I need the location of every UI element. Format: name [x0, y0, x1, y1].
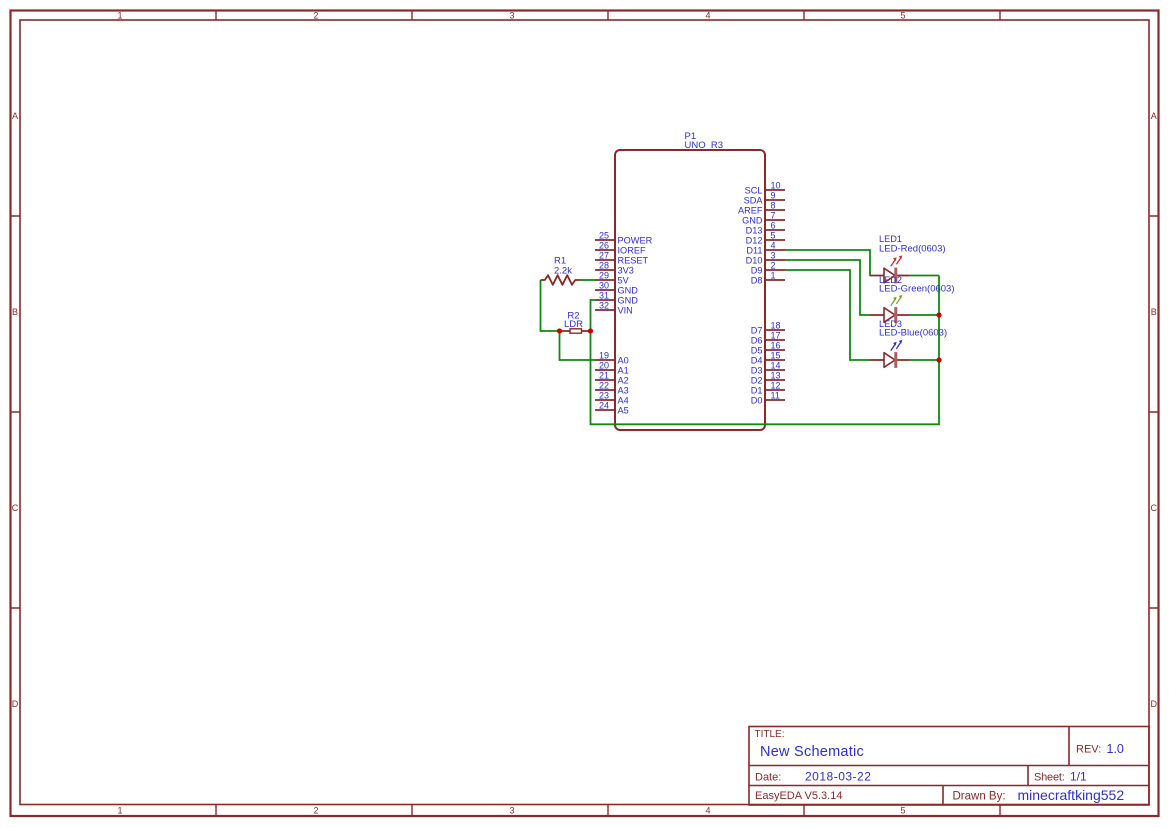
svg-text:11: 11 [771, 391, 780, 401]
svg-text:D1: D1 [751, 385, 763, 395]
svg-text:31: 31 [599, 291, 609, 301]
pin 10 SCL [745, 181, 785, 196]
svg-text:D2: D2 [751, 375, 763, 385]
pin 9 SDA [744, 191, 785, 206]
svg-text:16: 16 [771, 341, 781, 351]
svg-text:2: 2 [771, 261, 776, 271]
svg-text:GND: GND [618, 295, 639, 305]
svg-text:C: C [12, 503, 19, 513]
pin 12 D1 [751, 381, 785, 396]
svg-text:13: 13 [771, 371, 781, 381]
svg-text:EasyEDA V5.3.14: EasyEDA V5.3.14 [755, 790, 842, 802]
wire pin 3 D10 to LED2 anode [785, 260, 870, 315]
pin 11 D0 [751, 391, 785, 406]
pin 24 A5 [595, 401, 629, 416]
svg-text:A3: A3 [618, 385, 629, 395]
svg-text:28: 28 [599, 261, 609, 271]
svg-text:GND: GND [742, 215, 763, 225]
svg-text:VIN: VIN [618, 305, 633, 315]
pin 32 VIN [595, 301, 633, 316]
svg-text:A1: A1 [618, 365, 629, 375]
svg-text:AREF: AREF [738, 205, 763, 215]
svg-text:9: 9 [771, 191, 776, 201]
svg-text:12: 12 [771, 381, 781, 391]
pin 25 POWER [595, 231, 653, 246]
svg-text:1: 1 [117, 806, 122, 816]
svg-text:TITLE:: TITLE: [755, 729, 785, 740]
svg-text:4: 4 [771, 241, 776, 251]
svg-text:24: 24 [599, 401, 609, 411]
svg-text:A4: A4 [618, 395, 629, 405]
pin 5 D12 [746, 231, 785, 246]
svg-text:2: 2 [313, 10, 318, 20]
wire LED3 cathode to bus [910, 359, 940, 361]
LED LED1 LED-Red(0603) [870, 234, 946, 283]
svg-text:Date:: Date: [755, 772, 781, 784]
svg-text:D: D [1151, 699, 1158, 709]
pin 8 AREF [738, 201, 785, 216]
LED LED3 LED-Blue(0603) [870, 319, 948, 368]
pin 20 A1 [595, 361, 629, 376]
svg-text:IOREF: IOREF [618, 245, 646, 255]
pin 26 IOREF [595, 241, 646, 256]
svg-text:A: A [12, 111, 18, 121]
svg-text:14: 14 [771, 361, 781, 371]
wire LED1 cathode to bus [910, 275, 940, 277]
junction LED3 cathode [936, 357, 941, 362]
pin 28 3V3 [595, 261, 634, 276]
svg-text:1/1: 1/1 [1070, 770, 1087, 784]
pin 18 D7 [751, 321, 785, 336]
svg-text:Drawn By:: Drawn By: [953, 791, 1006, 803]
svg-text:27: 27 [599, 251, 609, 261]
svg-text:26: 26 [599, 241, 609, 251]
svg-text:5V: 5V [618, 275, 630, 285]
svg-text:29: 29 [599, 271, 609, 281]
pin 19 A0 [595, 351, 629, 366]
pin 6 D13 [746, 221, 785, 236]
svg-text:5: 5 [771, 231, 776, 241]
svg-text:LED-Red(0603): LED-Red(0603) [879, 244, 946, 255]
wire pin 2 D9 to LED3 anode [785, 270, 870, 360]
svg-text:B: B [1151, 307, 1157, 317]
pin 27 RESET [595, 251, 649, 266]
svg-text:3: 3 [771, 251, 776, 261]
pin 31 GND [595, 291, 638, 306]
svg-text:3V3: 3V3 [618, 265, 634, 275]
svg-text:B: B [12, 307, 18, 317]
svg-text:10: 10 [771, 181, 781, 191]
svg-text:D13: D13 [746, 225, 763, 235]
pin 21 A2 [595, 371, 629, 386]
wire node B bottom bus to LED cathode bus [591, 276, 940, 425]
svg-text:4: 4 [705, 10, 710, 20]
pin 2 D9 [751, 261, 785, 276]
svg-text:19: 19 [599, 351, 609, 361]
wire node A to pin 19 A0 [560, 331, 596, 360]
svg-text:17: 17 [771, 331, 781, 341]
svg-text:4: 4 [705, 806, 710, 816]
junction LED2 cathode [936, 312, 941, 317]
svg-text:D3: D3 [751, 365, 763, 375]
pin 16 D5 [751, 341, 785, 356]
svg-text:GND: GND [618, 285, 639, 295]
svg-text:D7: D7 [751, 325, 763, 335]
svg-text:7: 7 [771, 211, 776, 221]
svg-text:2018-03-22: 2018-03-22 [805, 770, 871, 784]
pin 7 GND [742, 211, 785, 226]
svg-text:5: 5 [900, 806, 905, 816]
svg-text:LED1: LED1 [879, 234, 902, 244]
wire R1 to pin 29 5V [581, 279, 596, 281]
svg-text:D6: D6 [751, 335, 763, 345]
svg-text:LDR: LDR [564, 319, 583, 330]
svg-text:20: 20 [599, 361, 609, 371]
svg-text:1.0: 1.0 [1107, 742, 1124, 756]
pin 23 A4 [595, 391, 629, 406]
svg-text:minecraftking552: minecraftking552 [1018, 787, 1125, 803]
wire R1 left to node A [541, 280, 560, 331]
svg-text:2: 2 [313, 806, 318, 816]
pin 13 D2 [751, 371, 785, 386]
svg-text:22: 22 [599, 381, 609, 391]
svg-text:D0: D0 [751, 395, 763, 405]
pin 1 D8 [751, 271, 785, 286]
wire pin 4 D11 to LED1 anode [785, 250, 870, 276]
svg-text:21: 21 [599, 371, 609, 381]
svg-text:SDA: SDA [744, 195, 764, 205]
svg-text:32: 32 [599, 301, 609, 311]
svg-text:25: 25 [599, 231, 609, 241]
LED LED2 LED-Green(0603) [870, 275, 955, 323]
wire node B to pin 31 GND [591, 300, 596, 331]
svg-text:15: 15 [771, 351, 781, 361]
junction node B [588, 328, 593, 333]
svg-text:Sheet:: Sheet: [1034, 772, 1065, 784]
svg-text:LED-Green(0603): LED-Green(0603) [879, 284, 955, 295]
svg-text:A2: A2 [618, 375, 629, 385]
pin 3 D10 [746, 251, 785, 266]
svg-text:1: 1 [117, 10, 122, 20]
svg-text:C: C [1151, 503, 1158, 513]
svg-text:D5: D5 [751, 345, 763, 355]
svg-text:New Schematic: New Schematic [760, 744, 864, 760]
pin 4 D11 [746, 241, 785, 256]
svg-text:REV:: REV: [1076, 744, 1101, 756]
svg-text:D12: D12 [746, 235, 763, 245]
resistor R2 LDR [560, 311, 591, 334]
svg-text:8: 8 [771, 201, 776, 211]
pin 14 D3 [751, 361, 785, 376]
svg-text:30: 30 [599, 281, 609, 291]
wire LED2 cathode to bus [910, 314, 940, 316]
svg-text:UNO_R3: UNO_R3 [685, 140, 724, 151]
svg-text:D4: D4 [751, 355, 763, 365]
svg-text:D9: D9 [751, 265, 763, 275]
svg-text:3: 3 [509, 806, 514, 816]
svg-text:SCL: SCL [745, 185, 763, 195]
pin 29 5V [595, 271, 630, 286]
svg-text:A0: A0 [618, 355, 629, 365]
resistor R1 2.2k [541, 256, 581, 285]
connector P1 UNO_R3 body [615, 150, 765, 430]
svg-text:18: 18 [771, 321, 781, 331]
svg-text:A: A [1151, 111, 1157, 121]
svg-text:23: 23 [599, 391, 609, 401]
svg-text:3: 3 [509, 10, 514, 20]
svg-text:D8: D8 [751, 275, 763, 285]
svg-text:1: 1 [771, 271, 776, 281]
pin 17 D6 [751, 331, 785, 346]
title block [749, 727, 1149, 806]
pin 30 GND [595, 281, 638, 296]
svg-text:RESET: RESET [618, 255, 649, 265]
svg-text:POWER: POWER [618, 235, 653, 245]
svg-text:D: D [12, 699, 19, 709]
svg-text:5: 5 [900, 10, 905, 20]
junction node A [557, 328, 562, 333]
svg-text:A5: A5 [618, 405, 629, 415]
pin 15 D4 [751, 351, 785, 366]
svg-text:D10: D10 [746, 255, 763, 265]
svg-text:LED-Blue(0603): LED-Blue(0603) [879, 328, 947, 339]
svg-text:D11: D11 [746, 245, 762, 255]
svg-text:2.2k: 2.2k [554, 265, 572, 276]
pin 22 A3 [595, 381, 629, 396]
svg-text:6: 6 [771, 221, 776, 231]
